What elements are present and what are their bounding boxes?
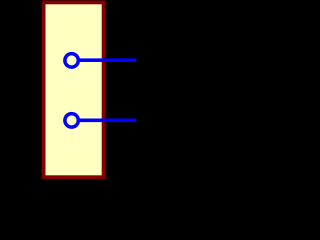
pin 1 wire [78, 58, 134, 62]
component body U1 (rectangle) [44, 2, 104, 177]
pin 2 wire [78, 119, 134, 123]
pin 2 circle [65, 114, 79, 128]
pin 1 circle [65, 54, 79, 68]
